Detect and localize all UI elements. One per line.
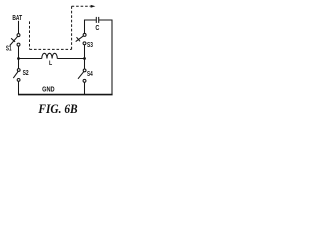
svg-text:S4: S4 <box>87 71 93 78</box>
wire BAT to S1 <box>18 21 20 34</box>
svg-text:FIG. 6B: FIG. 6B <box>37 102 77 116</box>
wire node A to S2 <box>18 59 20 69</box>
switch S2 <box>13 69 20 82</box>
ground rail <box>18 94 113 96</box>
capacitor C plates <box>96 17 98 23</box>
dashed current path left vertical <box>29 21 31 49</box>
switch S3 <box>76 33 86 44</box>
wire capacitor corner to S3 <box>84 20 86 33</box>
inductor L coil <box>42 53 57 58</box>
node B junction dot <box>83 57 86 60</box>
dashed current path top horizontal <box>72 5 91 7</box>
wire S3 to node B <box>84 45 86 59</box>
dashed current path bottom horizontal <box>30 48 72 50</box>
wire node A to inductor <box>19 58 42 60</box>
svg-text:S3: S3 <box>87 42 93 49</box>
svg-text:S1: S1 <box>6 45 12 52</box>
current path arrowhead <box>91 5 96 8</box>
wire inductor to node B <box>57 58 84 60</box>
wire S4 to ground rail <box>84 82 86 94</box>
wire S2 to ground rail <box>18 81 20 94</box>
svg-text:C: C <box>95 25 99 32</box>
svg-text:BAT: BAT <box>12 13 22 22</box>
dashed current path right vertical <box>71 6 73 49</box>
wire capacitor top left <box>85 19 97 22</box>
switch S4 <box>78 69 86 82</box>
wire capacitor right to ground rail <box>99 20 112 95</box>
svg-text:GND: GND <box>42 87 55 94</box>
svg-text:S2: S2 <box>23 70 29 77</box>
switch S1 <box>10 34 20 46</box>
wire S1 to node A <box>18 46 20 58</box>
svg-text:L: L <box>49 60 52 67</box>
node A junction dot <box>17 57 20 60</box>
wire node B to S4 <box>84 59 86 69</box>
